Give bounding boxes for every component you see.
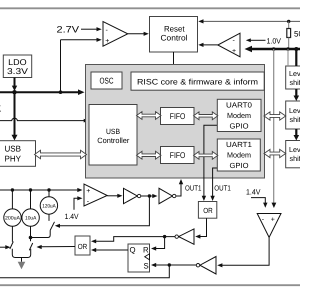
- svg-text:+: +: [105, 38, 109, 45]
- wire inverter1 to inverter2 with branch to switch: [141, 194, 158, 198]
- hollow double arrow FIFO1 to UART1: [194, 152, 218, 160]
- comparator (current sense, points right): [84, 184, 107, 206]
- switch for 120uA: [31, 214, 55, 237]
- Level shifter 2 box: [286, 101, 308, 129]
- svg-text:+: +: [86, 188, 90, 195]
- long 1.0V wire down to comparator plus input: [272, 49, 277, 208]
- inverter 2: [159, 188, 176, 203]
- hollow double arrow FIFO0 to UART0: [194, 112, 218, 120]
- 1.0V rail (thick): [245, 46, 301, 52]
- svg-text:Modem: Modem: [227, 111, 251, 120]
- svg-text:+: +: [232, 48, 236, 55]
- comparator (1.4V right, points down): [257, 214, 281, 238]
- bottom border of outer block: [0, 284, 300, 286]
- svg-text:UART0: UART0: [226, 100, 252, 109]
- svg-text:OSC: OSC: [100, 76, 114, 86]
- svg-text:FIFO: FIFO: [170, 111, 186, 121]
- LDO output wire down to 3.3V rail: [12, 78, 17, 95]
- current source 10uA: [22, 188, 39, 226]
- FIFO box 0: [161, 108, 195, 125]
- svg-text:1.4V: 1.4V: [65, 212, 80, 221]
- SR flip-flop box: [128, 244, 150, 272]
- switch transistor right: [29, 243, 32, 250]
- svg-text:10uA: 10uA: [25, 216, 37, 222]
- OR gate box (top): [198, 202, 216, 219]
- inverter (reset path, points left): [175, 229, 194, 244]
- resistor 50: [287, 21, 304, 48]
- comparator U_A (1.0V, points left): [218, 33, 240, 57]
- svg-text:PHY: PHY: [5, 154, 22, 164]
- svg-text:USB: USB: [106, 127, 120, 136]
- hollow double arrow RISC block to Level shifter 2: [264, 112, 286, 120]
- current source 120uA: [40, 188, 57, 214]
- hollow double arrow RISC block to Level shifter 3: [264, 149, 286, 157]
- USB PHY box: [0, 141, 36, 167]
- svg-text:120uA: 120uA: [42, 203, 56, 209]
- wire from right edge to Reset Control: [198, 19, 300, 23]
- svg-text:OUT1: OUT1: [185, 184, 202, 193]
- ground sink arrow (gray): [18, 262, 26, 269]
- svg-text:Modem: Modem: [227, 151, 251, 160]
- RISC block (gray): [86, 65, 265, 179]
- USB Controller box: [89, 105, 137, 166]
- inverter (set path, points left): [196, 257, 216, 275]
- svg-text:S: S: [144, 262, 149, 271]
- label 1.4V with wire to comparator minus input: [65, 196, 83, 221]
- wire inverter output to R input and OR2: [91, 235, 175, 251]
- wire to S input and down to left edge: [0, 263, 196, 278]
- svg-text:GPIO: GPIO: [230, 161, 249, 170]
- thick arrow Level shifter 2 to 3: [294, 129, 300, 141]
- LDO wire continued down to USB PHY: [12, 93, 18, 141]
- svg-text:3.3V: 3.3V: [7, 66, 28, 76]
- wire OUT1 from UART0 down to OR gate: [202, 125, 218, 201]
- svg-text:OR: OR: [203, 206, 213, 215]
- thick arrow Level shifter 1 to 2: [294, 89, 300, 101]
- hollow double arrow USB Controller to FIFO0: [137, 112, 162, 120]
- Reset Control box: [150, 17, 198, 53]
- wire from left edge to USB Controller with hop: [0, 118, 89, 122]
- wire branch down to 120uA switch: [55, 196, 150, 228]
- svg-text:R: R: [143, 246, 149, 255]
- svg-text:Control: Control: [161, 33, 188, 42]
- comparator U_B (2.7V, points right): [103, 22, 128, 47]
- inverter 1: [124, 188, 141, 203]
- wire OR2 output to switch gate: [37, 245, 76, 249]
- wire comparator to inverter 1: [107, 194, 122, 198]
- thick bus rail to Level shifter 1: [295, 50, 297, 66]
- svg-text:shift: shift: [290, 115, 301, 124]
- wire U_B output to Reset Control: [128, 32, 149, 36]
- wire 3.3V node to comparator U_B plus input: [59, 38, 102, 94]
- svg-text:shift: shift: [290, 78, 301, 87]
- svg-text:+: +: [271, 217, 275, 224]
- wire OR output to inverter: [195, 218, 206, 238]
- svg-text:K: K: [0, 104, 2, 114]
- svg-text:shift: shift: [290, 154, 301, 163]
- svg-text:Q: Q: [130, 246, 136, 255]
- label 2.7V with arrow: [57, 25, 102, 35]
- RISC core box: [131, 72, 264, 90]
- OR gate box (bottom): [75, 236, 90, 255]
- svg-text:Level: Level: [289, 106, 300, 115]
- bias rail into comparator plus input: [0, 188, 83, 192]
- svg-text:Level: Level: [289, 145, 300, 154]
- wire Q output to OR2: [91, 248, 128, 252]
- UART1 Modem GPIO box: [217, 139, 260, 171]
- wire 1.0V to Level shifter 1: [287, 49, 289, 66]
- UART0 Modem GPIO box: [217, 99, 261, 131]
- svg-text:Reset: Reset: [164, 25, 185, 34]
- Level shifter 3 box: [286, 141, 308, 168]
- current source 200uA: [4, 188, 21, 226]
- svg-text:UART1: UART1: [226, 140, 252, 149]
- label 1.0V with arrow: [246, 36, 282, 45]
- svg-text:OUT1: OUT1: [214, 184, 231, 193]
- svg-text:Controller: Controller: [97, 136, 129, 145]
- svg-text:FIFO: FIFO: [170, 150, 186, 160]
- wire comparator output to set inverter: [217, 237, 269, 267]
- wire U_A output to Reset Control: [198, 43, 218, 47]
- svg-text:USB: USB: [5, 144, 22, 154]
- gate arrow from left edge: [0, 245, 11, 249]
- wire Reset Control down to RISC block: [171, 52, 175, 71]
- svg-text:1.4V: 1.4V: [246, 187, 261, 196]
- Level shifter 1 box: [286, 66, 308, 89]
- hollow double arrow USB Controller to FIFO1: [137, 151, 162, 159]
- LDO 3.3V box: [3, 55, 31, 78]
- wire OUT1 from UART1 down to OR gate: [210, 168, 217, 201]
- svg-text:50: 50: [294, 30, 300, 39]
- FIFO box 1: [161, 147, 195, 164]
- OSC box: [91, 72, 122, 89]
- svg-text:2.7V: 2.7V: [57, 25, 81, 35]
- svg-text:1.0V: 1.0V: [267, 36, 282, 45]
- svg-text:Level: Level: [289, 69, 300, 78]
- svg-text:GPIO: GPIO: [230, 122, 249, 131]
- switch transistor left: [10, 226, 14, 249]
- hollow double arrow USB PHY to RISC block: [35, 150, 87, 158]
- label 1.4V with wire to comparator minus: [246, 187, 268, 208]
- wire inverter2 up into RISC block: [176, 179, 183, 196]
- svg-text:200uA: 200uA: [5, 216, 21, 222]
- wire 10uA node: [29, 226, 33, 241]
- 3.3V rail (thick) into RISC block: [0, 89, 85, 95]
- svg-text:OR: OR: [78, 242, 88, 251]
- funnel to current sink: [12, 249, 30, 262]
- svg-text:RISC core & firmware & inform: RISC core & firmware & inform: [137, 77, 258, 86]
- top border of outer block: [0, 7, 300, 9]
